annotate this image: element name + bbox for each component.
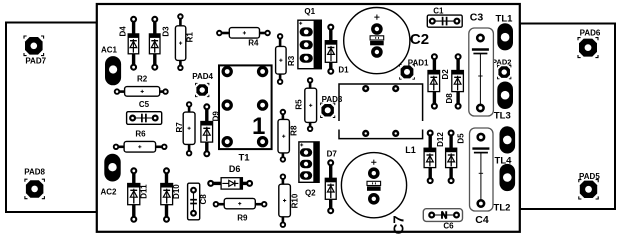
svg-text:AC2: AC2 <box>100 187 117 196</box>
svg-text:C7: C7 <box>391 215 408 234</box>
resistor R1 <box>175 14 194 70</box>
svg-text:TL3: TL3 <box>494 110 511 121</box>
svg-text:D2: D2 <box>441 69 450 80</box>
pad PAD3 <box>321 95 343 117</box>
left mounting tab of PCB outline <box>6 23 97 213</box>
diode D6 <box>208 164 252 189</box>
terminal TL1 <box>496 14 514 51</box>
capacitor C6 <box>423 209 462 231</box>
svg-text:TL1: TL1 <box>496 14 514 25</box>
svg-text:C5: C5 <box>139 100 150 109</box>
terminal TL4 <box>495 126 516 166</box>
main PCB board outline <box>97 4 520 232</box>
terminal TL2 <box>494 164 516 214</box>
diode D8 <box>445 54 463 108</box>
svg-text:D11: D11 <box>140 184 149 199</box>
svg-text:PAD7: PAD7 <box>25 57 46 66</box>
diode D7 <box>325 150 337 214</box>
svg-text:PAD8: PAD8 <box>24 167 45 176</box>
pad PAD1 <box>400 58 429 79</box>
svg-text:C6: C6 <box>443 221 454 230</box>
capacitor C7 <box>341 153 407 235</box>
pad PAD8 <box>24 167 45 198</box>
capacitor C5 <box>127 100 162 124</box>
svg-text:Q2: Q2 <box>305 188 316 197</box>
svg-text:D5: D5 <box>456 133 465 144</box>
resistor R5 <box>295 78 317 131</box>
svg-text:R3: R3 <box>287 55 296 66</box>
diode D12 <box>424 131 445 184</box>
diode D9 <box>201 104 221 156</box>
terminal AC1 <box>101 45 121 85</box>
capacitor C8 <box>188 183 208 220</box>
svg-text:R6: R6 <box>135 129 146 138</box>
svg-text:D7: D7 <box>327 150 338 159</box>
svg-text:D10: D10 <box>172 184 181 199</box>
diode D11 <box>128 168 149 221</box>
terminal TL3 <box>494 82 513 122</box>
terminal AC2 <box>100 154 120 197</box>
svg-text:PAD6: PAD6 <box>580 29 601 38</box>
svg-text:C1: C1 <box>433 6 444 15</box>
svg-text:L1: L1 <box>405 145 416 155</box>
svg-text:R10: R10 <box>290 193 299 208</box>
svg-text:R4: R4 <box>248 38 259 47</box>
svg-text:D6: D6 <box>229 164 241 174</box>
capacitor C2 <box>344 8 429 74</box>
svg-text:PAD4: PAD4 <box>192 72 213 81</box>
transistor Q2 <box>299 142 319 198</box>
svg-text:R9: R9 <box>237 213 248 222</box>
resistor R8 <box>278 110 298 162</box>
resistor R10 <box>279 174 300 227</box>
svg-text:1: 1 <box>252 113 265 140</box>
svg-text:R2: R2 <box>137 74 148 83</box>
resistor R2 <box>115 74 168 96</box>
resistor R9 <box>214 198 267 222</box>
pad PAD5 <box>579 172 601 199</box>
resistor R3 <box>276 34 296 84</box>
svg-text:D3: D3 <box>161 26 170 37</box>
svg-text:R7: R7 <box>175 122 184 133</box>
resistor R4 <box>217 28 270 48</box>
svg-text:D12: D12 <box>436 132 445 147</box>
right mounting tab of PCB outline <box>520 24 615 210</box>
svg-text:R8: R8 <box>289 125 298 136</box>
capacitor C3 <box>469 12 494 116</box>
resistor R7 <box>175 102 195 155</box>
svg-text:PAD1: PAD1 <box>408 58 429 67</box>
svg-text:D1: D1 <box>338 65 349 74</box>
svg-text:T1: T1 <box>238 152 250 163</box>
svg-text:C2: C2 <box>410 31 429 48</box>
svg-text:PAD2: PAD2 <box>492 57 511 66</box>
diode D10 <box>161 168 181 221</box>
svg-text:AC1: AC1 <box>101 45 118 54</box>
svg-text:R1: R1 <box>186 32 195 43</box>
resistor R6 <box>114 129 167 152</box>
inductor L1 <box>339 84 423 155</box>
pad PAD7 <box>24 36 47 66</box>
svg-text:R5: R5 <box>295 99 304 110</box>
diode D3 <box>149 17 170 70</box>
svg-text:PAD5: PAD5 <box>579 172 600 181</box>
svg-text:D4: D4 <box>118 26 127 37</box>
svg-text:TL2: TL2 <box>494 202 511 213</box>
svg-text:C3: C3 <box>470 12 484 24</box>
capacitor C1 <box>427 6 462 27</box>
svg-text:Q1: Q1 <box>304 7 315 16</box>
pad PAD4 <box>192 72 213 97</box>
capacitor C4 <box>470 128 494 226</box>
diode D1 <box>325 25 349 75</box>
diode D5 <box>446 131 466 184</box>
pad PAD2 <box>492 57 511 79</box>
svg-text:D8: D8 <box>445 93 454 104</box>
transformer T1 <box>219 65 272 163</box>
diode D4 <box>118 17 138 70</box>
pad PAD6 <box>578 29 601 58</box>
transistor Q1 <box>298 7 321 69</box>
svg-text:C8: C8 <box>199 194 208 205</box>
svg-text:C4: C4 <box>475 214 489 226</box>
diode D2 <box>428 54 450 108</box>
